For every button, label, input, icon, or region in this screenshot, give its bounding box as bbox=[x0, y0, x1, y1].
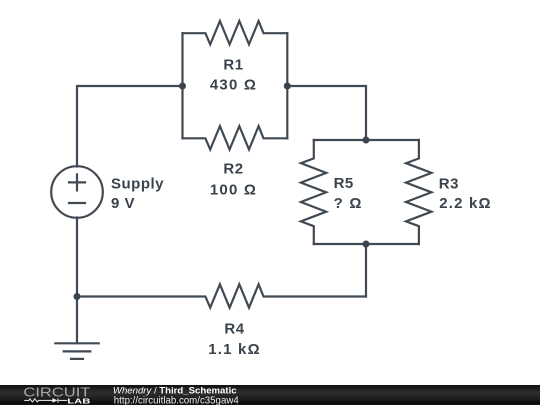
wire: supply top to parallel box bbox=[77, 86, 183, 167]
voltage source plus sign bbox=[69, 174, 85, 190]
resistor R2 bbox=[183, 126, 288, 149]
wire: parallel box left vertical bbox=[181, 33, 183, 138]
node E junction dot (ground rail) bbox=[74, 293, 81, 300]
wire: supply bottom to bottom rail bbox=[76, 218, 78, 297]
svg-text:http://circuitlab.com/c35gaw4: http://circuitlab.com/c35gaw4 bbox=[114, 395, 240, 405]
wire: parallel box right vertical bbox=[286, 33, 288, 138]
wire: ground stub bbox=[76, 297, 78, 344]
node A junction dot (left of parallel box) bbox=[179, 83, 186, 90]
node B junction dot (right of parallel box) bbox=[284, 83, 291, 90]
node D junction dot (bottom of R5/R3) bbox=[363, 241, 370, 248]
node C junction dot (top of R5/R3) bbox=[363, 137, 370, 144]
wire: node C stub down bbox=[365, 244, 367, 297]
resistor R1 bbox=[183, 21, 288, 44]
wire: R5/R3 box top bbox=[314, 139, 419, 141]
footer bar bbox=[0, 385, 540, 405]
resistor R5 bbox=[301, 140, 326, 244]
CircuitLab logo resistor-diode glyph bbox=[24, 398, 67, 402]
resistor R3 bbox=[406, 140, 432, 244]
wire: node B horizontal to right branch bbox=[287, 86, 366, 140]
voltage source minus sign bbox=[69, 202, 85, 204]
svg-text:LAB: LAB bbox=[67, 397, 91, 405]
ground symbol bbox=[55, 343, 98, 359]
wire: R5/R3 box bottom bbox=[314, 243, 419, 245]
voltage source V1 circle bbox=[51, 166, 103, 218]
resistor R4 with bottom rail wires bbox=[77, 284, 366, 307]
